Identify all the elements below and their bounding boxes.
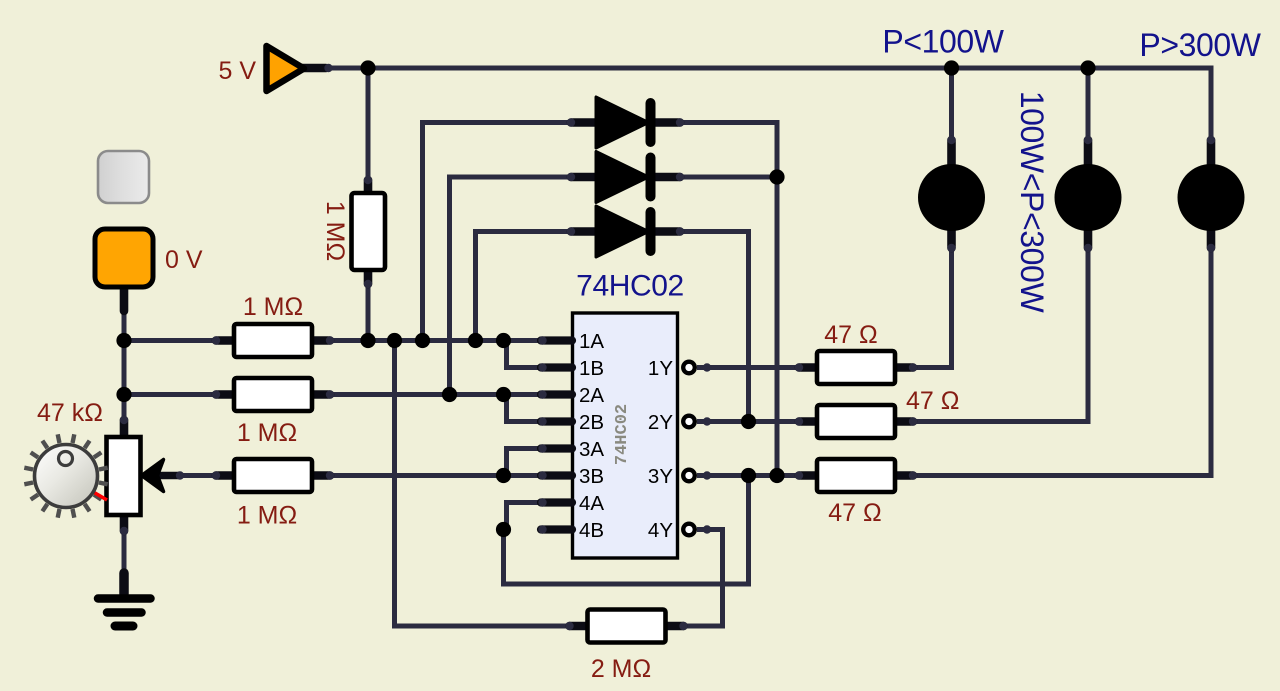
svg-text:3Y: 3Y bbox=[648, 465, 673, 488]
wire lamp L1 top lead bbox=[949, 68, 954, 142]
IC pin 3A stub bbox=[541, 444, 572, 452]
diode D1 bbox=[571, 118, 597, 127]
junction 3Y-loop bbox=[741, 468, 756, 483]
junction rail-L1 bbox=[944, 60, 959, 75]
resistor R5 47ohm bbox=[799, 417, 819, 426]
svg-text:47 kΩ: 47 kΩ bbox=[37, 399, 103, 427]
IC pin 1B stub bbox=[541, 363, 572, 371]
resistor R4 47ohm bbox=[799, 363, 819, 372]
svg-text:1B: 1B bbox=[579, 357, 604, 380]
wire resistor R5 to lamp L2 bbox=[910, 250, 1088, 422]
IC pin 3B stub bbox=[541, 471, 572, 479]
wire diode D1 output to vertical bus bbox=[678, 123, 777, 476]
wire 1Y output to resistor R4 bbox=[697, 365, 802, 370]
resistor R0 1M pull-up bbox=[364, 180, 373, 196]
junction left column row2 bbox=[116, 387, 131, 402]
wire bridge 1A-1B bbox=[507, 341, 547, 368]
potentiometer 47k body bbox=[120, 420, 129, 440]
wire row3 from pot wiper to pin 3B bbox=[178, 473, 546, 478]
wire 1M pull-up bottom to row1 bbox=[366, 278, 371, 341]
junction 3Y-bus bbox=[769, 468, 784, 483]
resistor R1 1M row1 bbox=[216, 336, 236, 345]
wire row1 from left column to pin 1A bbox=[124, 338, 546, 343]
diode D3 bbox=[571, 227, 597, 236]
svg-text:100W<P<300W: 100W<P<300W bbox=[1014, 91, 1050, 314]
power source 5V symbol bbox=[302, 64, 326, 73]
IC pin 3Y bubble and stub bbox=[703, 471, 711, 479]
wire diode D3 input from row1 bbox=[476, 232, 574, 342]
diode D2 bbox=[571, 173, 597, 182]
svg-text:2A: 2A bbox=[579, 384, 604, 407]
resistor R3 1M row3 bbox=[216, 471, 236, 480]
ground symbol bbox=[119, 573, 129, 594]
resistor R6 47ohm bbox=[799, 471, 819, 480]
potentiometer knob dial bbox=[99, 483, 108, 485]
svg-text:47 Ω: 47 Ω bbox=[906, 387, 959, 415]
svg-text:2B: 2B bbox=[579, 411, 604, 434]
junction D2-bus bbox=[769, 169, 784, 184]
wire row1 down to resistor R7 left bbox=[395, 341, 574, 626]
IC pin 4Y bubble and stub bbox=[703, 525, 711, 533]
svg-text:1Y: 1Y bbox=[648, 357, 673, 380]
junction row1-R7loop bbox=[387, 333, 402, 348]
svg-text:47 Ω: 47 Ω bbox=[824, 321, 877, 349]
potentiometer wiper arrow bbox=[160, 472, 179, 480]
resistor R7 2M bbox=[570, 622, 590, 631]
wire bridge 3B-3A bbox=[507, 449, 547, 476]
svg-text:P>300W: P>300W bbox=[1139, 27, 1261, 63]
IC pin 2Y bubble and stub bbox=[703, 417, 711, 425]
wire node 0V post down left column bbox=[122, 306, 127, 424]
wire 4Y output down to resistor R7 bbox=[684, 530, 723, 627]
svg-text:1 MΩ: 1 MΩ bbox=[237, 502, 297, 530]
wire diode D1 input from row1 bbox=[423, 123, 574, 342]
svg-text:2 MΩ: 2 MΩ bbox=[591, 655, 651, 683]
IC pin 4A stub bbox=[541, 498, 572, 506]
wire row2 from left column to pin 2A bbox=[124, 392, 546, 397]
wire resistor R6 to lamp L3 bbox=[910, 250, 1211, 476]
op IC U1 74HC02 body bbox=[573, 313, 678, 558]
source 0V orange square bbox=[120, 288, 129, 311]
resistor R2 1M row2 bbox=[216, 390, 236, 399]
junction row1-D3 bbox=[468, 333, 483, 348]
svg-text:74HC02: 74HC02 bbox=[613, 404, 632, 465]
IC pin 1A stub bbox=[541, 336, 572, 344]
svg-text:4A: 4A bbox=[579, 492, 604, 515]
wire pin 4B feedback down-right-up to 3Y node bbox=[504, 476, 749, 585]
junction row2-D2 bbox=[442, 387, 457, 402]
junction 5V-R0 bbox=[360, 60, 375, 75]
lamp L2 bbox=[1084, 140, 1093, 165]
lamp L1 bbox=[947, 140, 956, 165]
svg-text:4Y: 4Y bbox=[648, 519, 673, 542]
wire 2Y output to resistor R5 bbox=[697, 419, 802, 424]
wire 3Y output to resistor R6 bbox=[697, 473, 802, 478]
svg-text:1A: 1A bbox=[579, 330, 604, 353]
control grey square (toggle) bbox=[98, 151, 149, 203]
wire 5V to 1M pull-up and node row1 bbox=[366, 68, 371, 182]
junction row1-R0 bbox=[360, 333, 375, 348]
svg-text:3B: 3B bbox=[579, 465, 604, 488]
wire diode D2 output joining bus bbox=[678, 175, 777, 180]
IC pin 2A stub bbox=[541, 390, 572, 398]
lamp L3 bbox=[1207, 140, 1216, 165]
junction row1-1A bbox=[496, 333, 511, 348]
IC pin 1Y bubble and stub bbox=[703, 363, 711, 371]
junction row1-D1 bbox=[415, 333, 430, 348]
wire bridge 2A-2B bbox=[507, 395, 547, 422]
junction row2-2A bbox=[496, 387, 511, 402]
svg-text:47 Ω: 47 Ω bbox=[828, 499, 881, 527]
svg-text:1 MΩ: 1 MΩ bbox=[321, 201, 349, 261]
wire diode D2 input from row2 bbox=[450, 177, 574, 395]
IC pin 4B stub bbox=[541, 525, 572, 533]
svg-text:1 MΩ: 1 MΩ bbox=[237, 419, 297, 447]
svg-text:4B: 4B bbox=[579, 519, 604, 542]
wire lamp L2 top lead bbox=[1086, 68, 1091, 142]
wire resistor R4 to lamp L1 bbox=[910, 250, 952, 368]
junction 2Y-D3 bbox=[741, 414, 756, 429]
junction rail-L2 bbox=[1080, 60, 1095, 75]
svg-text:1 MΩ: 1 MΩ bbox=[243, 293, 303, 321]
wire bridge 4B-4A bbox=[507, 503, 547, 530]
wire top rail from 5V to lamp L3 bbox=[328, 68, 1211, 142]
IC pin 2B stub bbox=[541, 417, 572, 425]
wire pot top connection bbox=[122, 395, 127, 441]
svg-text:2Y: 2Y bbox=[648, 411, 673, 434]
junction 4B-loop bbox=[496, 522, 511, 537]
wire diode D3 output down to 2Y node bbox=[678, 232, 749, 422]
junction row3-3B bbox=[496, 468, 511, 483]
svg-text:5 V: 5 V bbox=[218, 57, 256, 85]
junction left column row1 bbox=[116, 333, 131, 348]
svg-text:P<100W: P<100W bbox=[882, 24, 1004, 60]
svg-text:0 V: 0 V bbox=[165, 246, 203, 274]
wire pot bottom to ground bbox=[122, 512, 127, 580]
svg-text:74HC02: 74HC02 bbox=[576, 270, 684, 303]
svg-text:3A: 3A bbox=[579, 438, 604, 461]
